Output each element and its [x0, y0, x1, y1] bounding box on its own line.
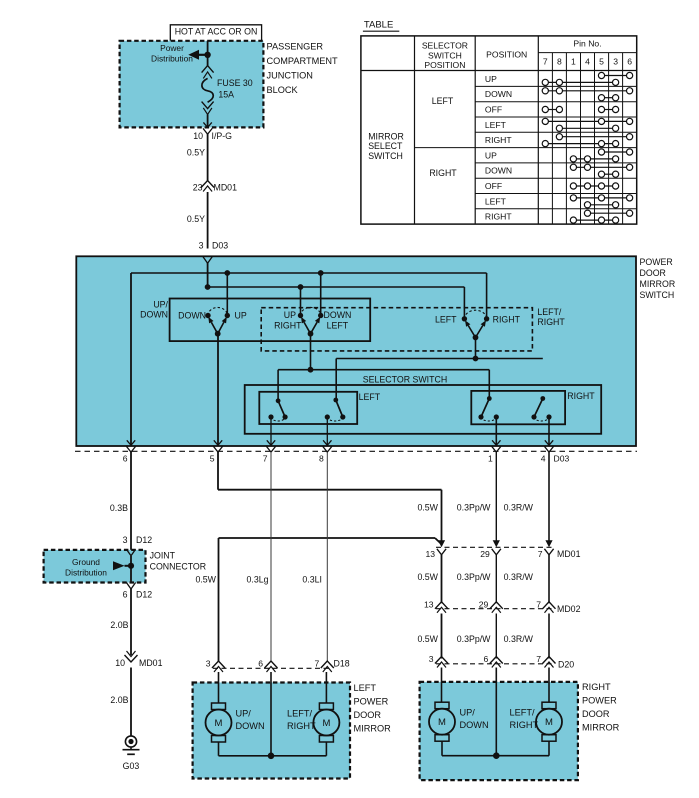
- svg-text:UP: UP: [485, 150, 497, 160]
- label MD01: [557, 549, 581, 559]
- svg-text:POSITION: POSITION: [486, 50, 527, 60]
- svg-text:UP/: UP/: [460, 708, 476, 718]
- wire left mirror common: [219, 672, 327, 759]
- label HOT AT ACC OR ON: [170, 25, 261, 41]
- svg-text:MIRROR: MIRROR: [582, 723, 620, 733]
- wire 0.5W from D03 pin5: [218, 452, 442, 541]
- svg-text:RIGHT: RIGHT: [274, 321, 302, 331]
- junction block PASSENGER COMPARTMENT JUNCTION BLOCK: [120, 41, 264, 128]
- svg-text:JOINT: JOINT: [150, 551, 176, 561]
- svg-text:0.5W: 0.5W: [417, 634, 438, 644]
- svg-text:Ground: Ground: [72, 557, 100, 567]
- svg-text:LEFT: LEFT: [432, 96, 454, 106]
- svg-text:6: 6: [627, 57, 632, 67]
- svg-text:LEFT: LEFT: [435, 314, 457, 324]
- connector pin 3 D20: [429, 654, 448, 668]
- svg-text:Distribution: Distribution: [151, 54, 193, 64]
- svg-text:CONNECTOR: CONNECTOR: [150, 562, 207, 572]
- table contact row LEFT DOWN: [542, 88, 633, 101]
- connector pin 3 D03 entering switch: [199, 241, 229, 251]
- motor left mirror LEFT/RIGHT: [313, 703, 339, 742]
- svg-text:3: 3: [613, 57, 618, 67]
- svg-text:0.3Pp/W: 0.3Pp/W: [457, 634, 491, 644]
- svg-text:BLOCK: BLOCK: [267, 85, 299, 95]
- label LEFT/RIGHT right: [510, 708, 539, 731]
- svg-text:LEFT/: LEFT/: [510, 708, 535, 718]
- svg-text:LEFT: LEFT: [327, 321, 349, 331]
- svg-text:23: 23: [193, 183, 203, 193]
- svg-text:COMPARTMENT: COMPARTMENT: [267, 56, 339, 66]
- wire from HOT AT ACC OR ON into junction block: [207, 41, 209, 66]
- table contact row LEFT LEFT: [542, 118, 633, 131]
- connector pin 8 D03: [319, 440, 332, 463]
- label D20: [558, 660, 574, 670]
- svg-text:2.0B: 2.0B: [110, 620, 128, 630]
- connector 23 MD01: [193, 181, 237, 193]
- svg-text:29: 29: [479, 600, 489, 610]
- svg-text:Distribution: Distribution: [65, 568, 107, 578]
- svg-text:MIRROR: MIRROR: [368, 132, 404, 142]
- wire selector R1 to D03 pin1: [495, 417, 497, 445]
- wire D20 pin3 to motor: [441, 668, 443, 703]
- wire 2.0B lower: [110, 668, 131, 737]
- svg-text:4: 4: [585, 57, 590, 67]
- motor left mirror UP/DOWN: [206, 703, 232, 742]
- arrow ground distribution tap: [113, 561, 134, 570]
- label LEFT/RIGHT: [537, 307, 565, 327]
- svg-text:RIGHT: RIGHT: [493, 314, 521, 324]
- svg-text:MD01: MD01: [557, 549, 581, 559]
- svg-text:0.3R/W: 0.3R/W: [504, 634, 534, 644]
- selector RIGHT box: [471, 391, 595, 425]
- ground G03: [123, 736, 140, 771]
- svg-text:7: 7: [538, 549, 543, 559]
- svg-text:3: 3: [429, 654, 434, 664]
- svg-text:3: 3: [199, 241, 204, 251]
- svg-text:MIRROR: MIRROR: [354, 724, 392, 734]
- svg-text:SWITCH: SWITCH: [640, 290, 675, 300]
- svg-text:7: 7: [543, 57, 548, 67]
- svg-text:0.5Y: 0.5Y: [187, 214, 205, 224]
- wire right mirror common: [442, 668, 549, 760]
- table contact row RIGHT DOWN: [570, 164, 632, 177]
- svg-text:MD02: MD02: [557, 604, 581, 614]
- wire 0.3R/W: [504, 452, 549, 541]
- svg-text:POSITION: POSITION: [424, 60, 465, 70]
- svg-text:13: 13: [424, 600, 434, 610]
- selector LEFT box: [259, 392, 380, 424]
- motor right mirror UP/DOWN: [429, 702, 455, 741]
- connector pin 6 D18: [258, 659, 277, 673]
- label Power Distribution: [151, 43, 193, 63]
- svg-text:SELECTOR: SELECTOR: [422, 41, 468, 51]
- switch LEFT/RIGHT: [435, 310, 521, 340]
- wire D20 pin7 to motor: [548, 668, 550, 703]
- table contact row RIGHT OFF: [570, 183, 618, 189]
- svg-text:MD01: MD01: [214, 183, 238, 193]
- wire selector L2 to D03 pin8: [326, 417, 328, 445]
- wire 0.3Pp/W to MD02: [457, 555, 497, 603]
- selector contact L2: [325, 398, 346, 421]
- svg-text:0.3Lg: 0.3Lg: [246, 575, 268, 585]
- svg-text:POWER: POWER: [582, 696, 617, 706]
- selector contact R2: [531, 396, 551, 421]
- connector pin 7 MD01: [538, 540, 554, 559]
- svg-text:UP/: UP/: [153, 300, 168, 310]
- svg-text:5: 5: [599, 57, 604, 67]
- wire switch1 common to D03 pin5: [217, 334, 219, 446]
- table contact row LEFT OFF: [542, 106, 619, 112]
- svg-text:TABLE: TABLE: [364, 20, 393, 31]
- svg-text:10: 10: [115, 658, 125, 668]
- svg-text:UP: UP: [485, 74, 497, 84]
- svg-text:8: 8: [557, 57, 562, 67]
- wire 0.3R/W to MD02: [504, 555, 549, 603]
- selector switch box: [245, 375, 602, 434]
- wire 0.5Y lower: [187, 192, 208, 249]
- label text HOT AT ACC OR ON: [175, 27, 258, 37]
- mirror switch function table: [361, 36, 637, 224]
- svg-text:4: 4: [541, 454, 546, 464]
- label D03: [554, 454, 570, 464]
- wire switch2 common to selector bus: [310, 334, 312, 370]
- table contact row LEFT RIGHT: [542, 134, 633, 147]
- svg-text:0.3LI: 0.3LI: [302, 575, 322, 585]
- svg-text:7: 7: [536, 600, 541, 610]
- connector pin 10 I/P-G: [193, 122, 232, 141]
- label PASSENGER COMPARTMENT JUNCTION BLOCK: [267, 42, 339, 96]
- svg-text:6: 6: [123, 590, 128, 600]
- connector pin 6 D20: [484, 654, 503, 668]
- label RIGHT POWER DOOR MIRROR: [582, 682, 620, 733]
- svg-text:7: 7: [315, 659, 320, 669]
- wire 0.3R/W to D20: [504, 614, 549, 659]
- connector pin 3 D12: [123, 535, 153, 556]
- wire 0.3Lg: [246, 452, 271, 661]
- connector pin 1 D03: [488, 440, 501, 463]
- svg-text:Power: Power: [160, 43, 184, 53]
- svg-text:DOOR: DOOR: [640, 268, 666, 278]
- right power door mirror box: [420, 682, 578, 780]
- label POWER DOOR MIRROR SWITCH: [640, 257, 676, 300]
- svg-text:D03: D03: [212, 241, 228, 251]
- svg-text:SELECTOR SWITCH: SELECTOR SWITCH: [363, 375, 447, 385]
- svg-text:13: 13: [425, 549, 435, 559]
- node power distribution tap: [204, 52, 210, 58]
- svg-text:7: 7: [536, 654, 541, 664]
- connector pin 7 D18: [315, 659, 334, 673]
- wire selector R2 to D03 pin4: [548, 417, 550, 445]
- svg-text:POWER: POWER: [640, 257, 673, 267]
- svg-text:DOWN: DOWN: [460, 720, 489, 730]
- connector pin 29 MD02: [479, 600, 503, 613]
- connector pin 6 D03: [123, 440, 136, 463]
- wire selector L1 to D03 pin7: [270, 417, 272, 445]
- svg-text:G03: G03: [123, 761, 140, 771]
- svg-text:UP: UP: [235, 311, 247, 321]
- connector pin 7 D03: [263, 440, 276, 463]
- wire 0.5W to D20: [417, 614, 441, 659]
- svg-text:LEFT: LEFT: [485, 196, 507, 206]
- connector pin 29 MD01: [480, 540, 501, 559]
- label Ground Distribution: [65, 557, 107, 578]
- label UP/DOWN: [140, 300, 168, 320]
- label JOINT CONNECTOR: [150, 551, 207, 572]
- svg-text:LEFT/: LEFT/: [537, 307, 562, 317]
- svg-text:15A: 15A: [218, 89, 234, 99]
- switch box UP/DOWN: [170, 299, 371, 342]
- svg-text:Pin No.: Pin No.: [573, 39, 601, 49]
- selector contact R1: [478, 396, 499, 421]
- wire switch3 common to selector bus: [475, 338, 477, 359]
- svg-text:0.5W: 0.5W: [417, 572, 438, 582]
- svg-text:M: M: [322, 718, 330, 729]
- svg-text:DOWN: DOWN: [485, 89, 512, 99]
- value label FUSE 30 15A: [217, 78, 253, 99]
- svg-text:M: M: [215, 718, 223, 729]
- svg-text:0.3R/W: 0.3R/W: [504, 503, 534, 513]
- svg-text:SWITCH: SWITCH: [428, 50, 462, 60]
- switch assembly POWER DOOR MIRROR SWITCH: [76, 256, 636, 446]
- wire 0.3Pp/W to D20: [457, 614, 497, 659]
- svg-text:0.5Y: 0.5Y: [187, 148, 205, 158]
- svg-text:LEFT/: LEFT/: [287, 709, 312, 719]
- svg-text:3: 3: [206, 659, 211, 669]
- wire stubs to switch contacts: [227, 273, 320, 316]
- wire selector feed line Q: [278, 367, 489, 401]
- svg-text:D20: D20: [558, 660, 574, 670]
- table contact row RIGHT LEFT: [570, 195, 632, 208]
- svg-text:DOOR: DOOR: [582, 709, 610, 719]
- svg-text:LEFT: LEFT: [359, 392, 381, 402]
- label LEFT/RIGHT: [287, 709, 316, 732]
- svg-text:RIGHT: RIGHT: [567, 391, 595, 401]
- connector pin 5 D03: [210, 440, 223, 463]
- svg-text:DOWN: DOWN: [178, 311, 206, 321]
- label D18: [334, 659, 350, 669]
- table contact row RIGHT UP: [570, 149, 632, 162]
- label UP/DOWN right: [460, 708, 489, 731]
- svg-text:7: 7: [263, 454, 268, 464]
- connector 10 MD01: [115, 651, 162, 668]
- wire 2.0B: [110, 589, 131, 655]
- wire 0.5W to MD02: [417, 555, 441, 603]
- wire through joint connector: [130, 556, 132, 583]
- connector D20: [436, 663, 553, 665]
- svg-text:I/P-G: I/P-G: [212, 131, 233, 141]
- svg-text:1: 1: [488, 454, 493, 464]
- svg-text:RIGHT: RIGHT: [485, 135, 512, 145]
- wire 0.3B: [110, 452, 131, 550]
- svg-text:LEFT: LEFT: [485, 120, 507, 130]
- selector contact L1: [268, 398, 287, 421]
- svg-text:DOOR: DOOR: [354, 710, 382, 720]
- label UP/DOWN: [236, 709, 265, 732]
- joint connector Ground Distribution box: [44, 550, 146, 583]
- connector D03: [75, 450, 637, 452]
- connector pin 3 D18: [206, 659, 225, 673]
- node bus junctions: [205, 270, 324, 290]
- svg-text:29: 29: [480, 549, 490, 559]
- svg-text:0.5W: 0.5W: [417, 503, 438, 513]
- svg-text:RIGHT: RIGHT: [485, 212, 512, 222]
- svg-text:6: 6: [123, 454, 128, 464]
- svg-text:0.3Pp/W: 0.3Pp/W: [457, 503, 491, 513]
- svg-text:0.3R/W: 0.3R/W: [504, 572, 534, 582]
- svg-text:6: 6: [258, 659, 263, 669]
- svg-text:DOWN: DOWN: [140, 310, 168, 320]
- svg-text:DOWN: DOWN: [236, 721, 265, 731]
- svg-text:0.3B: 0.3B: [110, 503, 128, 513]
- svg-text:UP: UP: [284, 310, 296, 320]
- svg-text:RIGHT: RIGHT: [429, 168, 457, 178]
- svg-text:HOT AT ACC OR ON: HOT AT ACC OR ON: [175, 27, 258, 37]
- svg-text:SWITCH: SWITCH: [368, 151, 403, 161]
- label MD02: [557, 604, 581, 614]
- svg-text:UP/: UP/: [236, 709, 252, 719]
- svg-text:D18: D18: [334, 659, 350, 669]
- svg-text:6: 6: [484, 654, 489, 664]
- left power door mirror box: [193, 683, 350, 779]
- svg-text:OFF: OFF: [485, 105, 502, 115]
- table contact row RIGHT RIGHT: [570, 210, 632, 223]
- svg-text:RIGHT: RIGHT: [510, 720, 539, 730]
- svg-text:8: 8: [319, 454, 324, 464]
- wire D03 pin3 entry: [203, 257, 212, 287]
- svg-text:SELECT: SELECT: [368, 141, 403, 151]
- svg-text:M: M: [438, 717, 446, 728]
- wire 0.3Pp/W: [457, 452, 497, 541]
- svg-text:3: 3: [123, 535, 128, 545]
- connector pin 7 MD02: [536, 600, 555, 613]
- label LEFT POWER DOOR MIRROR: [354, 683, 392, 734]
- connector pin 4 D03: [541, 440, 554, 463]
- connector pin 13 MD01: [425, 540, 446, 559]
- svg-text:D03: D03: [554, 454, 570, 464]
- svg-text:MD01: MD01: [139, 658, 163, 668]
- wire D18 pin7 to motor: [325, 672, 327, 703]
- svg-text:RIGHT: RIGHT: [582, 682, 611, 692]
- svg-text:FUSE 30: FUSE 30: [217, 78, 253, 88]
- svg-text:D12: D12: [136, 535, 152, 545]
- connector pin 6 D12: [123, 583, 153, 600]
- wire D18 pin3 to motor: [218, 672, 220, 703]
- svg-text:0.5W: 0.5W: [195, 575, 216, 585]
- table title TABLE: [363, 20, 399, 32]
- wire selector feed line P: [336, 356, 543, 400]
- svg-text:DOWN: DOWN: [324, 310, 352, 320]
- svg-text:2.0B: 2.0B: [110, 695, 128, 705]
- wire 0.5W branch to left mirror: [195, 538, 440, 661]
- svg-text:RIGHT: RIGHT: [287, 721, 316, 731]
- svg-text:MIRROR: MIRROR: [640, 279, 676, 289]
- wire 0.5W right run: [417, 503, 438, 513]
- svg-text:RIGHT: RIGHT: [537, 317, 565, 327]
- connector MD01: [436, 546, 553, 548]
- switch mirror vertical DOWN/UP: [178, 307, 247, 336]
- connector MD02: [436, 608, 553, 610]
- wire bus to pin 6: [131, 273, 487, 445]
- motor right mirror LEFT/RIGHT: [536, 702, 562, 741]
- svg-text:DOWN: DOWN: [485, 166, 512, 176]
- svg-text:D12: D12: [136, 590, 152, 600]
- connector pin 7 D20: [536, 654, 555, 668]
- arrow to Power Distribution: [188, 50, 207, 60]
- fuse FUSE 30 15A: [202, 66, 214, 128]
- wire 0.5Y: [187, 134, 208, 181]
- svg-text:10: 10: [193, 131, 203, 141]
- wire bus from pin 3: [208, 287, 465, 319]
- connector pin 13 MD02: [424, 600, 448, 613]
- wire 0.3LI: [302, 452, 327, 661]
- svg-text:LEFT: LEFT: [354, 683, 377, 693]
- table contact row LEFT UP: [542, 72, 633, 85]
- svg-text:1: 1: [571, 57, 576, 67]
- svg-text:PASSENGER: PASSENGER: [267, 42, 324, 52]
- svg-text:OFF: OFF: [485, 181, 502, 191]
- svg-text:JUNCTION: JUNCTION: [267, 71, 313, 81]
- dashed switch box UP-RIGHT / DOWN-LEFT / LEFT/RIGHT: [261, 308, 532, 351]
- svg-text:5: 5: [210, 454, 215, 464]
- svg-text:0.3Pp/W: 0.3Pp/W: [457, 572, 491, 582]
- svg-text:POWER: POWER: [354, 697, 389, 707]
- switch middle UP-RIGHT / DOWN-LEFT: [274, 307, 351, 336]
- svg-text:M: M: [545, 717, 553, 728]
- connector D18: [213, 667, 331, 669]
